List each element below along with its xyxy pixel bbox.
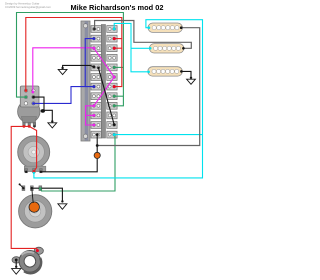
output jack xyxy=(12,247,43,273)
wire: magenta from push-pull to switch left lug 3 xyxy=(33,48,94,92)
middle pickup xyxy=(149,44,184,53)
wire: magenta zigzag switch left 3 to right 6 to left 9 xyxy=(94,48,114,106)
solder dots: push-pull pot lugs xyxy=(23,125,26,128)
wire: black push-pull switch lug to casing and ground xyxy=(33,97,52,122)
wire: green from switch bottom to tone pot lug xyxy=(41,135,116,191)
solder dots: tone pot lugs xyxy=(31,187,33,189)
push-pull pot base xyxy=(22,117,37,124)
svg-text:Mike Richardson's mod 02: Mike Richardson's mod 02 xyxy=(71,3,164,12)
wire: black tone pot middle lug to ground xyxy=(32,188,63,202)
neck pickup xyxy=(148,23,182,32)
push-pull pot body xyxy=(18,100,40,122)
selector switch center bar xyxy=(101,25,105,139)
solder dots: pickups xyxy=(148,26,151,29)
ground under push-pull xyxy=(48,120,57,128)
selector switch body xyxy=(81,21,90,141)
ground left of switch xyxy=(58,67,67,75)
solder dots: switch left column xyxy=(93,28,96,31)
wire: black switch bottom lug through cap to volume lug 3 xyxy=(41,135,97,172)
bridge pickup xyxy=(148,67,183,76)
node: junction gray/black xyxy=(96,144,99,147)
push-pull DPDT switch xyxy=(20,86,39,107)
casing solder blob xyxy=(41,109,45,113)
ground at bridge pickup xyxy=(187,77,196,85)
wire: black diagonal switch left 5 to right 11 xyxy=(98,68,114,125)
svg-text:CC2009 hermeticoguitar@gmail.: CC2009 hermeticoguitar@gmail.com xyxy=(5,5,52,9)
wire: black tone lug1 casing hook xyxy=(20,185,24,188)
tone pot xyxy=(19,186,52,228)
solder dots: push-pull DPDT xyxy=(25,89,28,92)
ground at tone pot xyxy=(58,200,67,209)
wire: black bridge pickup to ground xyxy=(181,71,191,78)
solder dots: volume pot lugs xyxy=(25,171,27,173)
wire: blue from push-pull to switch left lugs 2/7 xyxy=(33,39,94,104)
selector switch left lug column xyxy=(91,26,101,33)
capacitor C1 xyxy=(94,152,100,158)
wire: gray middle pickup loop to switch left lug 1 xyxy=(95,21,192,49)
wire: magenta bracket switch left lugs 9/10/11 xyxy=(86,106,94,125)
wire: black jack sleeve to ground xyxy=(15,260,17,267)
ground at jack xyxy=(12,266,21,275)
wire: cyan switch right lug1 to middle and bridge pickups xyxy=(114,23,150,71)
wire: black switch left lug 5 to ground xyxy=(63,65,94,68)
solder dots: output jack xyxy=(36,249,39,252)
solder dots: switch right column xyxy=(113,28,116,31)
volume pot xyxy=(18,136,50,173)
wire: red from push-pull pot lug to volume pot middle lug xyxy=(29,126,36,171)
credit text xyxy=(5,1,52,8)
wire: gray neck pickup to junction above volume cap xyxy=(97,28,200,146)
selector switch right lug column xyxy=(107,26,117,33)
capacitor C2 on tone pot xyxy=(29,202,39,212)
wire: cyan switch bottom lug to right edge xyxy=(114,134,202,136)
wire: cyan neck pickup loop to volume pot lug xyxy=(34,20,203,178)
push-pull pot solder lugs xyxy=(23,123,26,127)
wire: green from push-pull to switch right lugs 5/8/9 xyxy=(17,13,124,106)
wire: red bridge on push-pull pot lugs to output jack tip xyxy=(11,126,37,250)
wire: red from push-pull to switch right lugs 2/3/7 xyxy=(26,18,122,91)
wire: cap leg to tone middle lug xyxy=(32,190,33,204)
